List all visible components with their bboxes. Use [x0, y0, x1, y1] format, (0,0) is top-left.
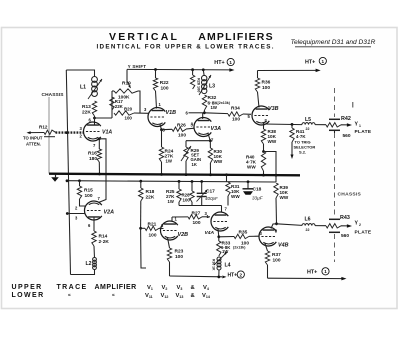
svg-text:22K: 22K [115, 104, 124, 109]
resistor R39 10K WW [274, 183, 278, 198]
svg-text:TRACE: TRACE [57, 284, 88, 291]
triode V1B [148, 108, 165, 127]
svg-text:100: 100 [178, 133, 186, 139]
svg-text:V1B: V1B [166, 110, 177, 116]
svg-text:22K: 22K [82, 110, 91, 116]
svg-text:R28 100: R28 100 [197, 78, 201, 92]
svg-text:WW: WW [268, 139, 277, 144]
svg-text:R36: R36 [262, 80, 271, 86]
svg-text:400pF: 400pF [205, 196, 218, 201]
wire V2B grid node down [141, 228, 146, 268]
svg-text:R13: R13 [82, 104, 91, 110]
svg-text:PLATE: PLATE [355, 229, 372, 235]
wire R18 down to grid node [140, 201, 142, 228]
wire R31 bottom to V4A anode node [227, 196, 229, 206]
svg-text:«: « [112, 293, 115, 299]
svg-text:AMPLIFIERS: AMPLIFIERS [198, 31, 274, 43]
svg-text:Telequipment D31 and D31R: Telequipment D31 and D31R [291, 39, 376, 46]
svg-text:VERTICAL: VERTICAL [109, 31, 179, 43]
svg-text:100: 100 [85, 193, 93, 199]
resistor R28 bleed (vertical label) [190, 75, 194, 89]
svg-text:Y: Y [355, 221, 359, 227]
resistor R36 100 [257, 71, 259, 79]
inductor L6 [302, 224, 315, 226]
svg-text:2: 2 [359, 223, 361, 227]
svg-text:WW: WW [231, 194, 240, 199]
wire R39 to Y2 node [275, 198, 278, 224]
resistor R16 180 [97, 149, 101, 162]
wire bottom left return [71, 269, 95, 275]
svg-text:L2: L2 [86, 261, 92, 267]
resistor R13 22K [92, 101, 96, 116]
svg-text:V4B: V4B [278, 242, 289, 248]
wire R15 to V2A grid pin 2 [80, 199, 86, 206]
svg-text:Y SHIFT: Y SHIFT [128, 64, 147, 69]
svg-text:R16: R16 [88, 151, 97, 157]
svg-text:R20: R20 [124, 107, 133, 112]
resistor R20 100 [114, 111, 134, 115]
inductor L5 [302, 123, 315, 125]
svg-text:TO INPUT: TO INPUT [23, 136, 43, 141]
chassis line left [48, 97, 50, 174]
svg-text:100: 100 [193, 220, 201, 226]
resistor R34 100 [204, 112, 228, 115]
feedthrough capacitor C Y2 [329, 218, 340, 220]
svg-text:100: 100 [262, 85, 270, 91]
svg-text:2: 2 [240, 272, 243, 277]
svg-text:«: « [68, 293, 71, 299]
resistor R22 100 [155, 70, 157, 79]
svg-text:S.2.: S.2. [299, 149, 306, 154]
ground arrow [55, 174, 57, 177]
resistor R31 10K WW [226, 182, 230, 196]
svg-text:V2B: V2B [178, 232, 189, 238]
svg-text:C18: C18 [253, 186, 262, 192]
wire shielded input to V1A grid [56, 131, 85, 133]
resistor R26 100 [162, 128, 173, 130]
svg-text:100: 100 [183, 197, 191, 202]
svg-text:V3A: V3A [211, 126, 222, 132]
wire V4A cathode down [217, 229, 220, 237]
svg-text:100: 100 [125, 116, 133, 121]
svg-text:R35: R35 [239, 229, 248, 235]
svg-text:HT+: HT+ [214, 60, 224, 66]
wire box right [138, 91, 140, 113]
svg-text:L1: L1 [80, 85, 86, 91]
svg-text:LOWER: LOWER [12, 292, 45, 299]
svg-text:1: 1 [229, 60, 232, 65]
svg-text:R22: R22 [160, 80, 169, 86]
wire V4B cathode pin to R37 [265, 244, 268, 252]
triode V3B [252, 106, 269, 125]
svg-text:WW: WW [214, 159, 223, 164]
wire R22 to V1B anode pin 1 [156, 91, 157, 109]
svg-text:100: 100 [149, 233, 157, 239]
svg-text:ATTEN.: ATTEN. [26, 142, 41, 147]
inductor L4 variable [217, 257, 221, 261]
wire R36 to V3B anode [258, 92, 260, 108]
feedthrough capacitor C Y1 [329, 118, 340, 120]
svg-text:WW: WW [280, 195, 289, 200]
triode V4B [259, 227, 276, 246]
svg-text:&: & [191, 285, 195, 291]
resistor R37 100 [265, 251, 269, 265]
wire Y2 plate line [277, 224, 303, 226]
svg-text:100: 100 [232, 117, 240, 123]
svg-text:AMPLIFIER: AMPLIFIER [95, 284, 137, 291]
svg-text:R23: R23 [175, 249, 184, 255]
chassis stray dash upper right [352, 102, 354, 108]
svg-text:1W: 1W [168, 199, 174, 204]
svg-text:560: 560 [341, 233, 349, 239]
wire anode to R17 box [95, 117, 113, 119]
wire HT1 bottom rail [268, 277, 344, 279]
svg-text:100: 100 [273, 257, 281, 263]
svg-text:22: 22 [306, 228, 310, 232]
svg-text:R19: R19 [122, 81, 131, 87]
wire box left [112, 90, 114, 92]
resistor R21 100 [141, 227, 145, 229]
triode V3A [194, 118, 211, 137]
svg-text:1K: 1K [192, 162, 197, 167]
wire R23 to HT2 rail [169, 262, 171, 276]
resistor R28b 100 [191, 182, 193, 192]
svg-text:Y: Y [355, 122, 359, 128]
resistor R32 6.8K 1W [202, 95, 206, 110]
inductor L2 [93, 258, 97, 262]
svg-text:22K: 22K [146, 194, 155, 200]
wire left vertical rail [66, 70, 70, 275]
svg-text:R12: R12 [39, 125, 48, 130]
chassis dash line right lower [334, 234, 336, 262]
wire rail stubs to bus [226, 175, 228, 182]
svg-text:1: 1 [359, 124, 361, 128]
wire L4 to HT2 rail [218, 270, 220, 278]
wire V2B anode pin 1 [171, 217, 173, 221]
svg-text:R32: R32 [208, 95, 217, 101]
resistor R12 input [44, 130, 56, 134]
resistor R33 6.8K 1W [218, 237, 220, 241]
triode V2B [160, 221, 177, 240]
wire V2B cathode pin to R23 [168, 238, 170, 249]
wire R40 top to bus stub [264, 152, 277, 176]
svg-text:WW: WW [247, 165, 256, 170]
resistor R30 10K WW [209, 141, 211, 148]
svg-text:R34: R34 [231, 106, 240, 112]
resistor R42 560 [326, 123, 341, 127]
resistor R18 22K [140, 181, 142, 188]
resistor R14 2.2K [92, 231, 96, 246]
svg-text:R37: R37 [272, 252, 281, 258]
svg-text:L4: L4 [225, 263, 231, 269]
wire V2A grid pin 3 [66, 212, 69, 215]
svg-text:R26: R26 [177, 123, 186, 129]
wire box bottom rail [179, 205, 222, 207]
svg-text:HT+: HT+ [307, 270, 317, 276]
potentiometer R29 SET GAIN 1K [185, 141, 187, 147]
resistor R35 100 [219, 236, 234, 238]
inductor L3 variable [202, 75, 207, 80]
chassis dash line right upper [334, 88, 336, 117]
node anode V1A pin 6 [93, 117, 96, 120]
wire R37 to HT1 rail [267, 265, 269, 278]
resistor R17 22K [110, 97, 114, 110]
svg-text:L6: L6 [305, 217, 311, 223]
resistor R15 100 [79, 181, 81, 186]
svg-text:C17: C17 [206, 189, 215, 195]
svg-text:R14: R14 [99, 234, 108, 240]
svg-text:V4A: V4A [205, 230, 215, 236]
svg-text:IDENTICAL FOR UPPER & LOWER TR: IDENTICAL FOR UPPER & LOWER TRACES. [97, 43, 275, 50]
svg-text:33µF: 33µF [252, 196, 264, 201]
resistor R41 4.7K to trig selector [290, 128, 294, 142]
wire HT2 bottom rail [170, 275, 223, 278]
wire Y1 plate line [264, 123, 303, 126]
svg-text:V3B: V3B [268, 106, 279, 112]
svg-text:CHASSIS: CHASSIS [338, 192, 362, 198]
svg-text:1W: 1W [211, 105, 218, 110]
svg-text:&: & [191, 293, 195, 299]
svg-text:V2A: V2A [104, 210, 115, 216]
capacitor C17 400pF variable [201, 182, 203, 194]
svg-text:100: 100 [175, 254, 183, 260]
inductor L1 variable [92, 77, 98, 83]
svg-text:R42: R42 [341, 116, 351, 122]
resistor R25 27K 1W [178, 181, 180, 189]
wire R26 to V3A grid [186, 127, 195, 130]
triode V2A inverted [84, 201, 101, 220]
svg-text:R27: R27 [192, 210, 201, 216]
svg-text:L3: L3 [209, 84, 215, 90]
svg-text:180: 180 [89, 156, 97, 162]
chassis dash line right middle [334, 133, 336, 217]
svg-text:2·2K: 2·2K [99, 239, 110, 245]
wire V4B anode pin 8 [271, 224, 277, 229]
svg-text:R21: R21 [148, 222, 157, 228]
svg-text:CHASSIS: CHASSIS [42, 92, 65, 98]
triode V1A [83, 122, 100, 141]
svg-text:R36 1K: R36 1K [212, 259, 216, 271]
svg-text:1: 1 [322, 59, 325, 64]
svg-text:22: 22 [306, 127, 310, 131]
resistor R40 4.7K WW [263, 144, 265, 151]
svg-text:(2x13k): (2x13k) [218, 101, 231, 105]
wire thin grid rail [67, 181, 277, 182]
svg-text:L5: L5 [305, 117, 311, 123]
svg-text:R43: R43 [340, 215, 350, 221]
triode V4A [211, 212, 228, 231]
wire V2A anode pin 6 [93, 217, 95, 231]
wire top-left corner [66, 70, 94, 77]
capacitor C18 33uF [247, 182, 249, 189]
svg-text:(2x13k): (2x13k) [233, 246, 246, 250]
potentiometer R19 100K [126, 69, 128, 81]
svg-text:V1A: V1A [102, 129, 112, 135]
resistor R38 10K WW [263, 124, 265, 129]
wire cathode line to R29 R30 [186, 140, 210, 142]
wire V1A cathode to V2A cathode [99, 139, 107, 203]
svg-text:PLATE: PLATE [355, 129, 372, 135]
svg-text:R18: R18 [146, 189, 155, 195]
wire R20 to V1B grid pin 3 [134, 112, 149, 114]
svg-text:1W: 1W [166, 159, 173, 164]
resistor R27 100 [172, 216, 188, 218]
svg-text:UPPER: UPPER [12, 284, 43, 291]
svg-text:HT+: HT+ [228, 273, 238, 279]
resistor R23 100 [167, 248, 171, 262]
wire HT bus right [258, 69, 318, 71]
resistor R24 27K 1W [161, 130, 163, 147]
svg-text:560: 560 [343, 133, 351, 139]
resistor R43 560 [326, 224, 341, 228]
svg-text:R15: R15 [84, 188, 93, 194]
svg-text:1: 1 [324, 269, 327, 274]
svg-text:HT+: HT+ [305, 59, 315, 65]
svg-text:100: 100 [161, 86, 169, 92]
wire V4A anode up [221, 206, 223, 213]
wire heavy HT bus [49, 174, 300, 176]
